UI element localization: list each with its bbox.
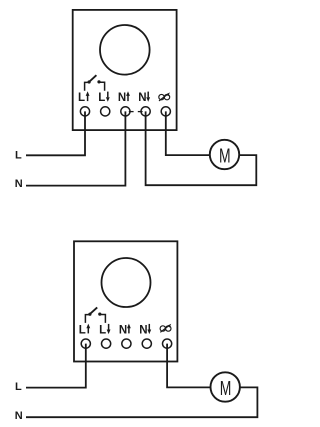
wire: L supply to terminal 1 (bottom) <box>26 344 86 388</box>
label N-down (top, terminal 4) <box>138 92 150 105</box>
relay contact S1 (top) <box>85 75 105 91</box>
svg-text:L: L <box>79 325 86 337</box>
terminal 1 (L-up, top) <box>80 107 89 116</box>
wire: L supply to terminal 1 (top) <box>26 111 85 155</box>
wire: motor right side to N supply (bottom) <box>26 387 257 417</box>
svg-text:N: N <box>15 410 23 422</box>
label L-up (bottom, terminal 1) <box>79 324 90 337</box>
svg-text:M: M <box>220 378 232 400</box>
label motor-output symbol (top, terminal 5) <box>159 92 170 101</box>
svg-text:M: M <box>219 146 231 168</box>
label N-down (bottom, terminal 4) <box>139 324 151 337</box>
terminal 4 (N-down, top) <box>138 107 150 116</box>
label motor-output symbol (bottom, terminal 5) <box>160 324 171 333</box>
label N-up (top, terminal 3) <box>118 91 130 104</box>
label L-up (top, terminal 1) <box>78 91 90 104</box>
motor M2 (bottom) <box>211 372 240 401</box>
label N-up (bottom, terminal 3) <box>119 324 131 337</box>
timer unit U2 (bottom) enclosure <box>74 241 177 361</box>
terminal 2 (L-down, bottom) <box>102 339 111 348</box>
wire: terminal 4 to motor right side (top) <box>146 111 257 185</box>
terminal 2 (L-down, top) <box>101 107 110 116</box>
svg-text:L: L <box>78 92 85 104</box>
svg-text:L: L <box>99 325 106 337</box>
svg-text:N: N <box>138 92 146 104</box>
wire: terminal 5 to motor left side (top) <box>166 111 210 155</box>
svg-text:N: N <box>15 178 23 190</box>
wire: terminal 5 to motor left side (bottom) <box>167 344 210 388</box>
svg-text:L: L <box>15 381 22 393</box>
terminal 1 (L-up, bottom) <box>81 339 90 348</box>
terminal 3 (N-up, bottom) <box>122 339 131 348</box>
terminal 4 (N-down, bottom) <box>142 339 151 348</box>
motor M1 (top) <box>210 140 239 169</box>
wire: N supply to terminal 3 (top) <box>26 111 125 185</box>
svg-text:N: N <box>118 92 126 104</box>
dial of timer U1 (top) <box>100 25 150 75</box>
terminal 3 (N-up, top) <box>121 107 134 116</box>
svg-text:L: L <box>98 92 105 104</box>
svg-text:N: N <box>139 325 147 337</box>
relay contact S2 (bottom) <box>85 307 105 323</box>
label L-down (top, terminal 2) <box>98 92 109 105</box>
dial of timer U2 (bottom) <box>102 258 151 307</box>
terminal 5 (motor output, bottom) <box>163 339 172 348</box>
terminal 5 (motor output, top) <box>161 107 170 116</box>
svg-text:L: L <box>15 149 22 161</box>
label L-down (bottom, terminal 2) <box>99 324 110 337</box>
svg-text:N: N <box>119 325 127 337</box>
timer unit U1 (top) enclosure <box>73 10 177 130</box>
